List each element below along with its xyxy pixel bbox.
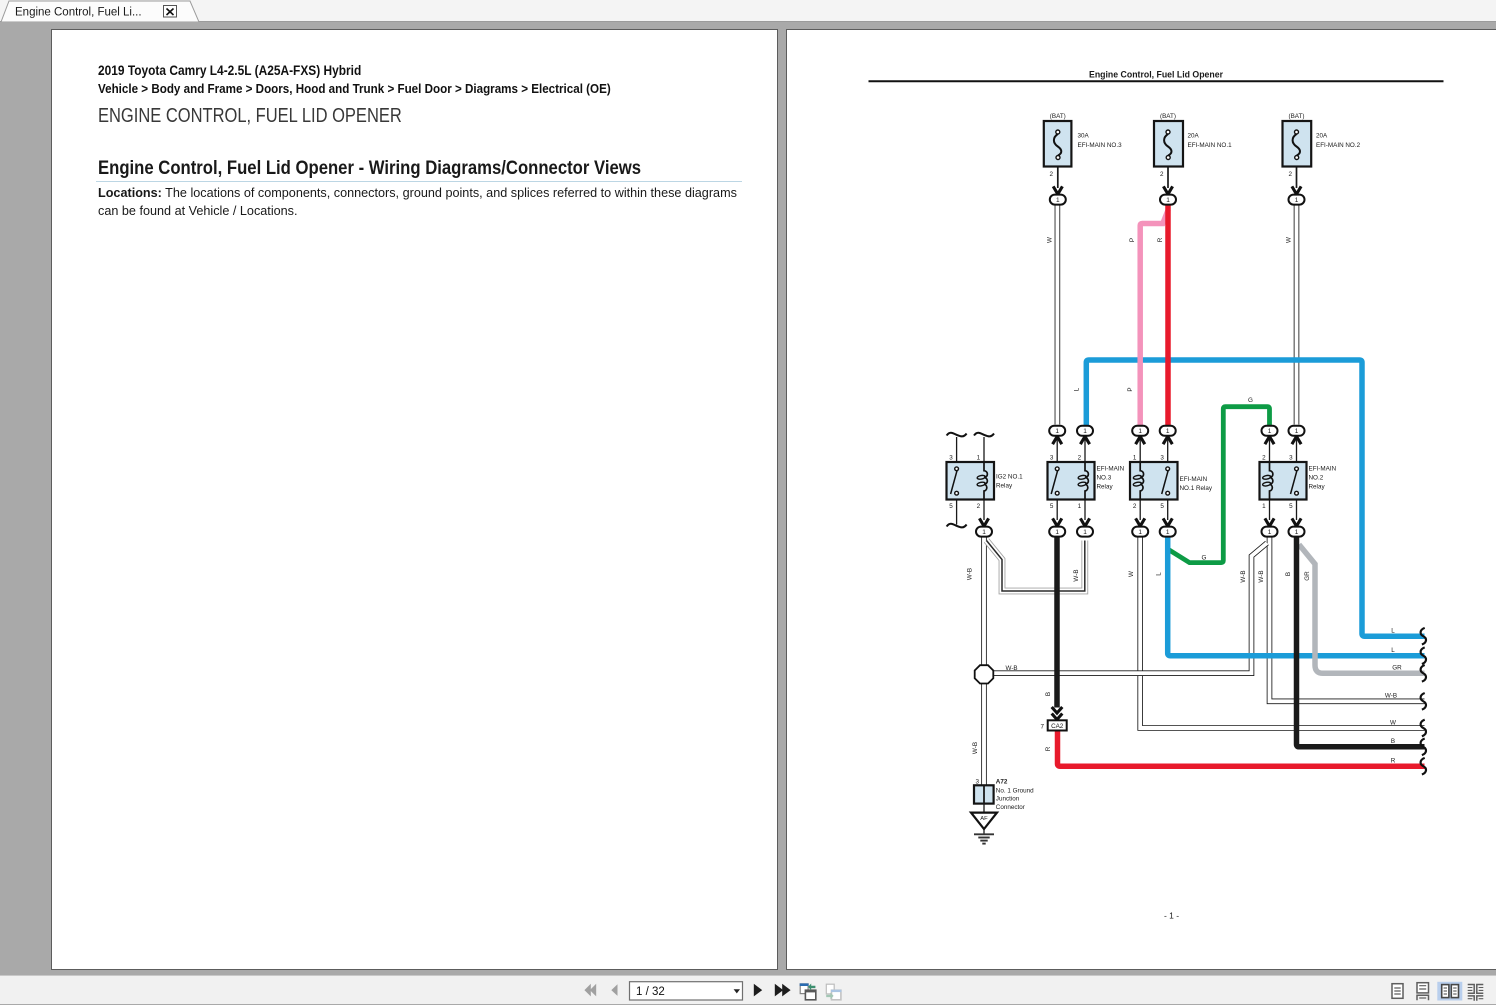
svg-text:1: 1 [1083,529,1087,536]
svg-text:2: 2 [1049,171,1053,178]
svg-text:Junction: Junction [996,796,1020,803]
svg-text:R: R [1045,746,1052,751]
svg-text:(BAT): (BAT) [1160,113,1176,120]
svg-text:1: 1 [1138,529,1142,536]
svg-text:(BAT): (BAT) [1289,113,1305,120]
svg-text:G: G [1248,397,1253,404]
svg-text:L: L [1155,572,1162,576]
svg-text:EFI-MAIN: EFI-MAIN [1309,466,1337,473]
svg-text:5: 5 [1160,503,1164,510]
svg-text:EFI-MAIN: EFI-MAIN [1097,466,1125,473]
svg-text:1: 1 [982,529,986,536]
svg-text:EFI-MAIN NO.1: EFI-MAIN NO.1 [1188,142,1233,149]
svg-text:W: W [1286,237,1293,243]
svg-text:W-B: W-B [1385,693,1397,700]
svg-text:L: L [1391,628,1395,635]
svg-text:1: 1 [1056,197,1060,204]
svg-text:L: L [1391,647,1395,654]
svg-text:1: 1 [1295,529,1299,536]
svg-text:GR: GR [1392,665,1402,672]
svg-text:30A: 30A [1078,133,1090,140]
svg-text:1: 1 [977,455,981,462]
svg-text:3: 3 [975,779,979,786]
svg-text:W-B: W-B [967,568,974,580]
svg-text:1: 1 [1268,428,1272,435]
svg-text:W: W [1128,571,1135,577]
svg-text:EFI-MAIN NO.2: EFI-MAIN NO.2 [1316,142,1361,149]
svg-text:W-B: W-B [1258,570,1265,582]
svg-text:1: 1 [1268,529,1272,536]
svg-text:No. 1 Ground: No. 1 Ground [996,787,1034,794]
svg-text:NO.3: NO.3 [1097,475,1112,482]
svg-text:1: 1 [1295,428,1299,435]
svg-text:Relay: Relay [996,483,1013,490]
svg-text:W: W [1390,719,1396,726]
svg-text:P: P [1129,238,1136,242]
svg-text:Connector: Connector [996,804,1025,811]
svg-text:R: R [1391,758,1396,765]
svg-text:EFI-MAIN: EFI-MAIN [1180,476,1208,483]
svg-text:EFI-MAIN NO.3: EFI-MAIN NO.3 [1078,142,1123,149]
svg-text:NO.1 Relay: NO.1 Relay [1180,485,1213,492]
svg-text:P: P [1127,387,1134,391]
svg-text:W: W [1046,237,1053,243]
svg-text:W-B: W-B [1240,570,1247,582]
svg-text:1 / 32: 1 / 32 [636,986,665,998]
svg-text:1: 1 [1138,428,1142,435]
svg-text:- 1 -: - 1 - [1164,911,1179,921]
svg-text:NO.2: NO.2 [1309,475,1324,482]
svg-text:Engine Control, Fuel Lid Opene: Engine Control, Fuel Lid Opener [1089,70,1223,81]
svg-text:1: 1 [1262,503,1266,510]
svg-text:2: 2 [1078,455,1082,462]
svg-text:(BAT): (BAT) [1050,113,1066,120]
svg-text:3: 3 [1289,455,1293,462]
svg-text:1: 1 [1295,197,1299,204]
svg-text:2: 2 [1262,455,1266,462]
svg-text:3: 3 [1160,455,1164,462]
svg-text:1: 1 [1055,529,1059,536]
svg-text:20A: 20A [1188,133,1200,140]
svg-text:5: 5 [1289,503,1293,510]
svg-text:2: 2 [1288,171,1292,178]
svg-text:3: 3 [949,455,953,462]
svg-text:A72: A72 [996,779,1008,786]
svg-text:AF: AF [980,816,988,822]
svg-text:B: B [1391,738,1395,745]
svg-text:IG2 NO.1: IG2 NO.1 [996,474,1023,481]
svg-text:Relay: Relay [1309,484,1326,491]
svg-text:R: R [1157,237,1164,242]
svg-text:5: 5 [949,503,953,510]
svg-text:5: 5 [1050,503,1054,510]
svg-text:B: B [1285,572,1292,576]
svg-text:1: 1 [1055,428,1059,435]
svg-text:W-B: W-B [972,742,979,754]
svg-text:1: 1 [1166,428,1170,435]
svg-text:B: B [1045,692,1052,696]
svg-text:CA2: CA2 [1051,723,1064,730]
svg-text:G: G [1202,555,1207,562]
svg-text:3: 3 [1050,455,1054,462]
svg-text:2: 2 [1160,171,1164,178]
svg-text:1: 1 [1133,455,1137,462]
svg-text:2: 2 [1133,503,1137,510]
svg-text:Engine Control, Fuel Li...: Engine Control, Fuel Li... [15,7,142,19]
svg-text:Relay: Relay [1097,484,1114,491]
svg-text:1: 1 [1166,197,1170,204]
svg-text:7: 7 [1040,724,1044,731]
svg-text:2: 2 [977,503,981,510]
svg-text:W-B: W-B [1073,569,1080,581]
svg-text:20A: 20A [1316,133,1328,140]
svg-text:1: 1 [1078,503,1082,510]
svg-text:L: L [1073,387,1080,391]
svg-text:W-B: W-B [1006,665,1018,672]
svg-text:1: 1 [1083,428,1087,435]
svg-text:1: 1 [1166,529,1170,536]
svg-text:GR: GR [1304,571,1311,581]
